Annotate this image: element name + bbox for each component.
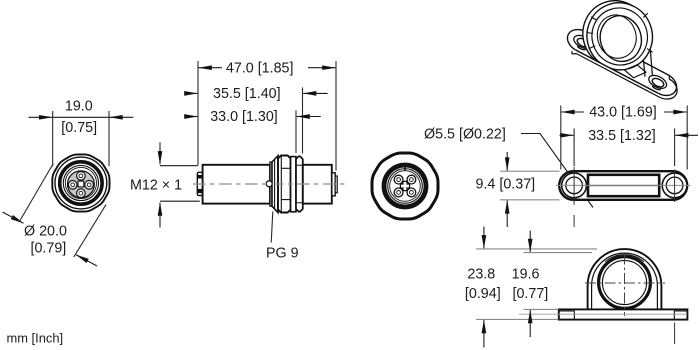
PG9 leader <box>271 212 273 243</box>
svg-text:[0.77]: [0.77] <box>513 286 549 302</box>
dim 47.0 line <box>199 67 222 69</box>
left connector front view: knurl ring <box>52 154 109 211</box>
iso saddle flare left lines <box>592 45 602 62</box>
iso saddle flare right lines <box>642 43 652 76</box>
iso slot under ring <box>625 65 647 78</box>
hole axes vertical <box>573 167 575 205</box>
left view inner circle 1 <box>63 165 98 200</box>
bracket front: arch rib 2 <box>592 253 658 309</box>
iso ring outer <box>578 0 662 79</box>
side view PG9 nut <box>296 156 303 211</box>
isometric bracket <box>567 0 677 99</box>
bracket slot mid line <box>588 185 659 187</box>
middle view center cross <box>400 181 409 190</box>
iso base bottom edge <box>572 52 677 100</box>
left view center keyway <box>78 181 84 187</box>
svg-text:Ø5.5 [Ø0.22]: Ø5.5 [Ø0.22] <box>424 126 506 142</box>
iso base front side face fill <box>575 49 658 96</box>
side view right tip <box>332 173 335 196</box>
top view horizontal centerline <box>556 184 691 186</box>
dim M12 lines <box>160 165 198 167</box>
dim 35.5 line + outside arrows <box>302 88 304 154</box>
base end caps <box>559 309 574 319</box>
gray seam on base <box>519 313 687 315</box>
svg-text:PG 9: PG 9 <box>266 246 299 262</box>
svg-text:47.0 [1.85]: 47.0 [1.85] <box>226 60 294 76</box>
dim dia20 tangent line lower-right <box>74 205 106 257</box>
iso bore <box>595 11 647 66</box>
svg-text:mm [Inch]: mm [Inch] <box>7 330 64 345</box>
dim 33.5 <box>573 129 575 167</box>
dim 9.4 <box>500 170 560 172</box>
svg-text:19.6: 19.6 <box>512 267 540 283</box>
side view knurl nut <box>278 156 291 213</box>
iso base front edge <box>576 50 658 93</box>
middle view thick ring <box>384 165 426 207</box>
left view thick coupling ring <box>60 162 102 204</box>
iso ear hole left <box>576 37 590 49</box>
middle view pins <box>394 175 403 184</box>
dim 19.6 <box>524 252 593 254</box>
svg-text:33.0 [1.30]: 33.0 [1.30] <box>210 109 278 125</box>
dim 47.0 ext lines <box>197 61 199 166</box>
dim dia20 tangent line upper-left <box>20 164 53 221</box>
dia5.5 leader <box>521 134 593 208</box>
bracket front: base <box>559 309 688 319</box>
dim 19.0 extension lines <box>52 111 54 167</box>
middle view keyway notch <box>404 167 406 171</box>
svg-text:33.5 [1.32]: 33.5 [1.32] <box>588 128 656 144</box>
svg-text:23.8: 23.8 <box>467 267 495 283</box>
svg-text:[0.75]: [0.75] <box>61 120 97 136</box>
dim dia20 arrow lower-right <box>76 255 97 266</box>
iso ear boss right <box>647 73 669 91</box>
svg-text:[0.79]: [0.79] <box>31 241 67 257</box>
middle view circle <box>388 169 423 204</box>
bracket hole right <box>662 173 687 198</box>
iso ear boss left <box>572 33 594 51</box>
dim 23.8 <box>476 248 597 250</box>
iso ring facet lines <box>589 46 595 49</box>
iso bore depth rim <box>592 10 641 62</box>
svg-text:[0.94]: [0.94] <box>465 286 501 302</box>
bracket front: centerlines <box>585 282 665 284</box>
bracket top view plate <box>559 171 687 200</box>
iso base plate top face <box>567 30 676 96</box>
side view o-ring circle <box>266 181 272 187</box>
bracket front: arch rib 3 <box>605 255 644 262</box>
bracket hole left <box>562 173 587 198</box>
left view outer circle <box>55 157 107 209</box>
svg-text:9.4 [0.37]: 9.4 [0.37] <box>476 177 536 193</box>
side view main body <box>203 165 270 204</box>
svg-text:M12 × 1: M12 × 1 <box>130 177 182 193</box>
middle connector front view knurl <box>372 153 438 219</box>
bracket front: tube circle <box>599 257 651 309</box>
middle view circle2 <box>390 171 421 202</box>
side view washer <box>291 157 296 212</box>
dim dia20 arrow upper-left <box>3 212 24 223</box>
iso ring face mid <box>584 0 655 73</box>
dim 43.0 <box>560 106 562 170</box>
side view taper cone <box>272 156 278 213</box>
svg-text:35.5 [1.40]: 35.5 [1.40] <box>213 86 281 102</box>
side view left tip (thread) <box>197 172 202 195</box>
bracket top view slot <box>588 175 659 196</box>
side view collar step <box>270 162 272 206</box>
svg-text:19.0: 19.0 <box>65 98 93 114</box>
side view centerline over part <box>193 183 349 185</box>
left view inner circle 2 <box>65 167 96 198</box>
bracket front: outer arch <box>588 249 662 309</box>
dim 33.0 line + outside arrows <box>295 111 297 154</box>
svg-text:43.0 [1.69]: 43.0 [1.69] <box>589 105 657 121</box>
dim 19.0 line + arrows outside <box>29 116 53 118</box>
iso ring back rim <box>573 0 657 77</box>
svg-text:Ø 20.0: Ø 20.0 <box>24 224 67 240</box>
iso ear hole right <box>651 77 665 89</box>
left view insert face <box>68 171 95 198</box>
left view pins <box>77 172 86 181</box>
side view right body <box>303 165 332 204</box>
